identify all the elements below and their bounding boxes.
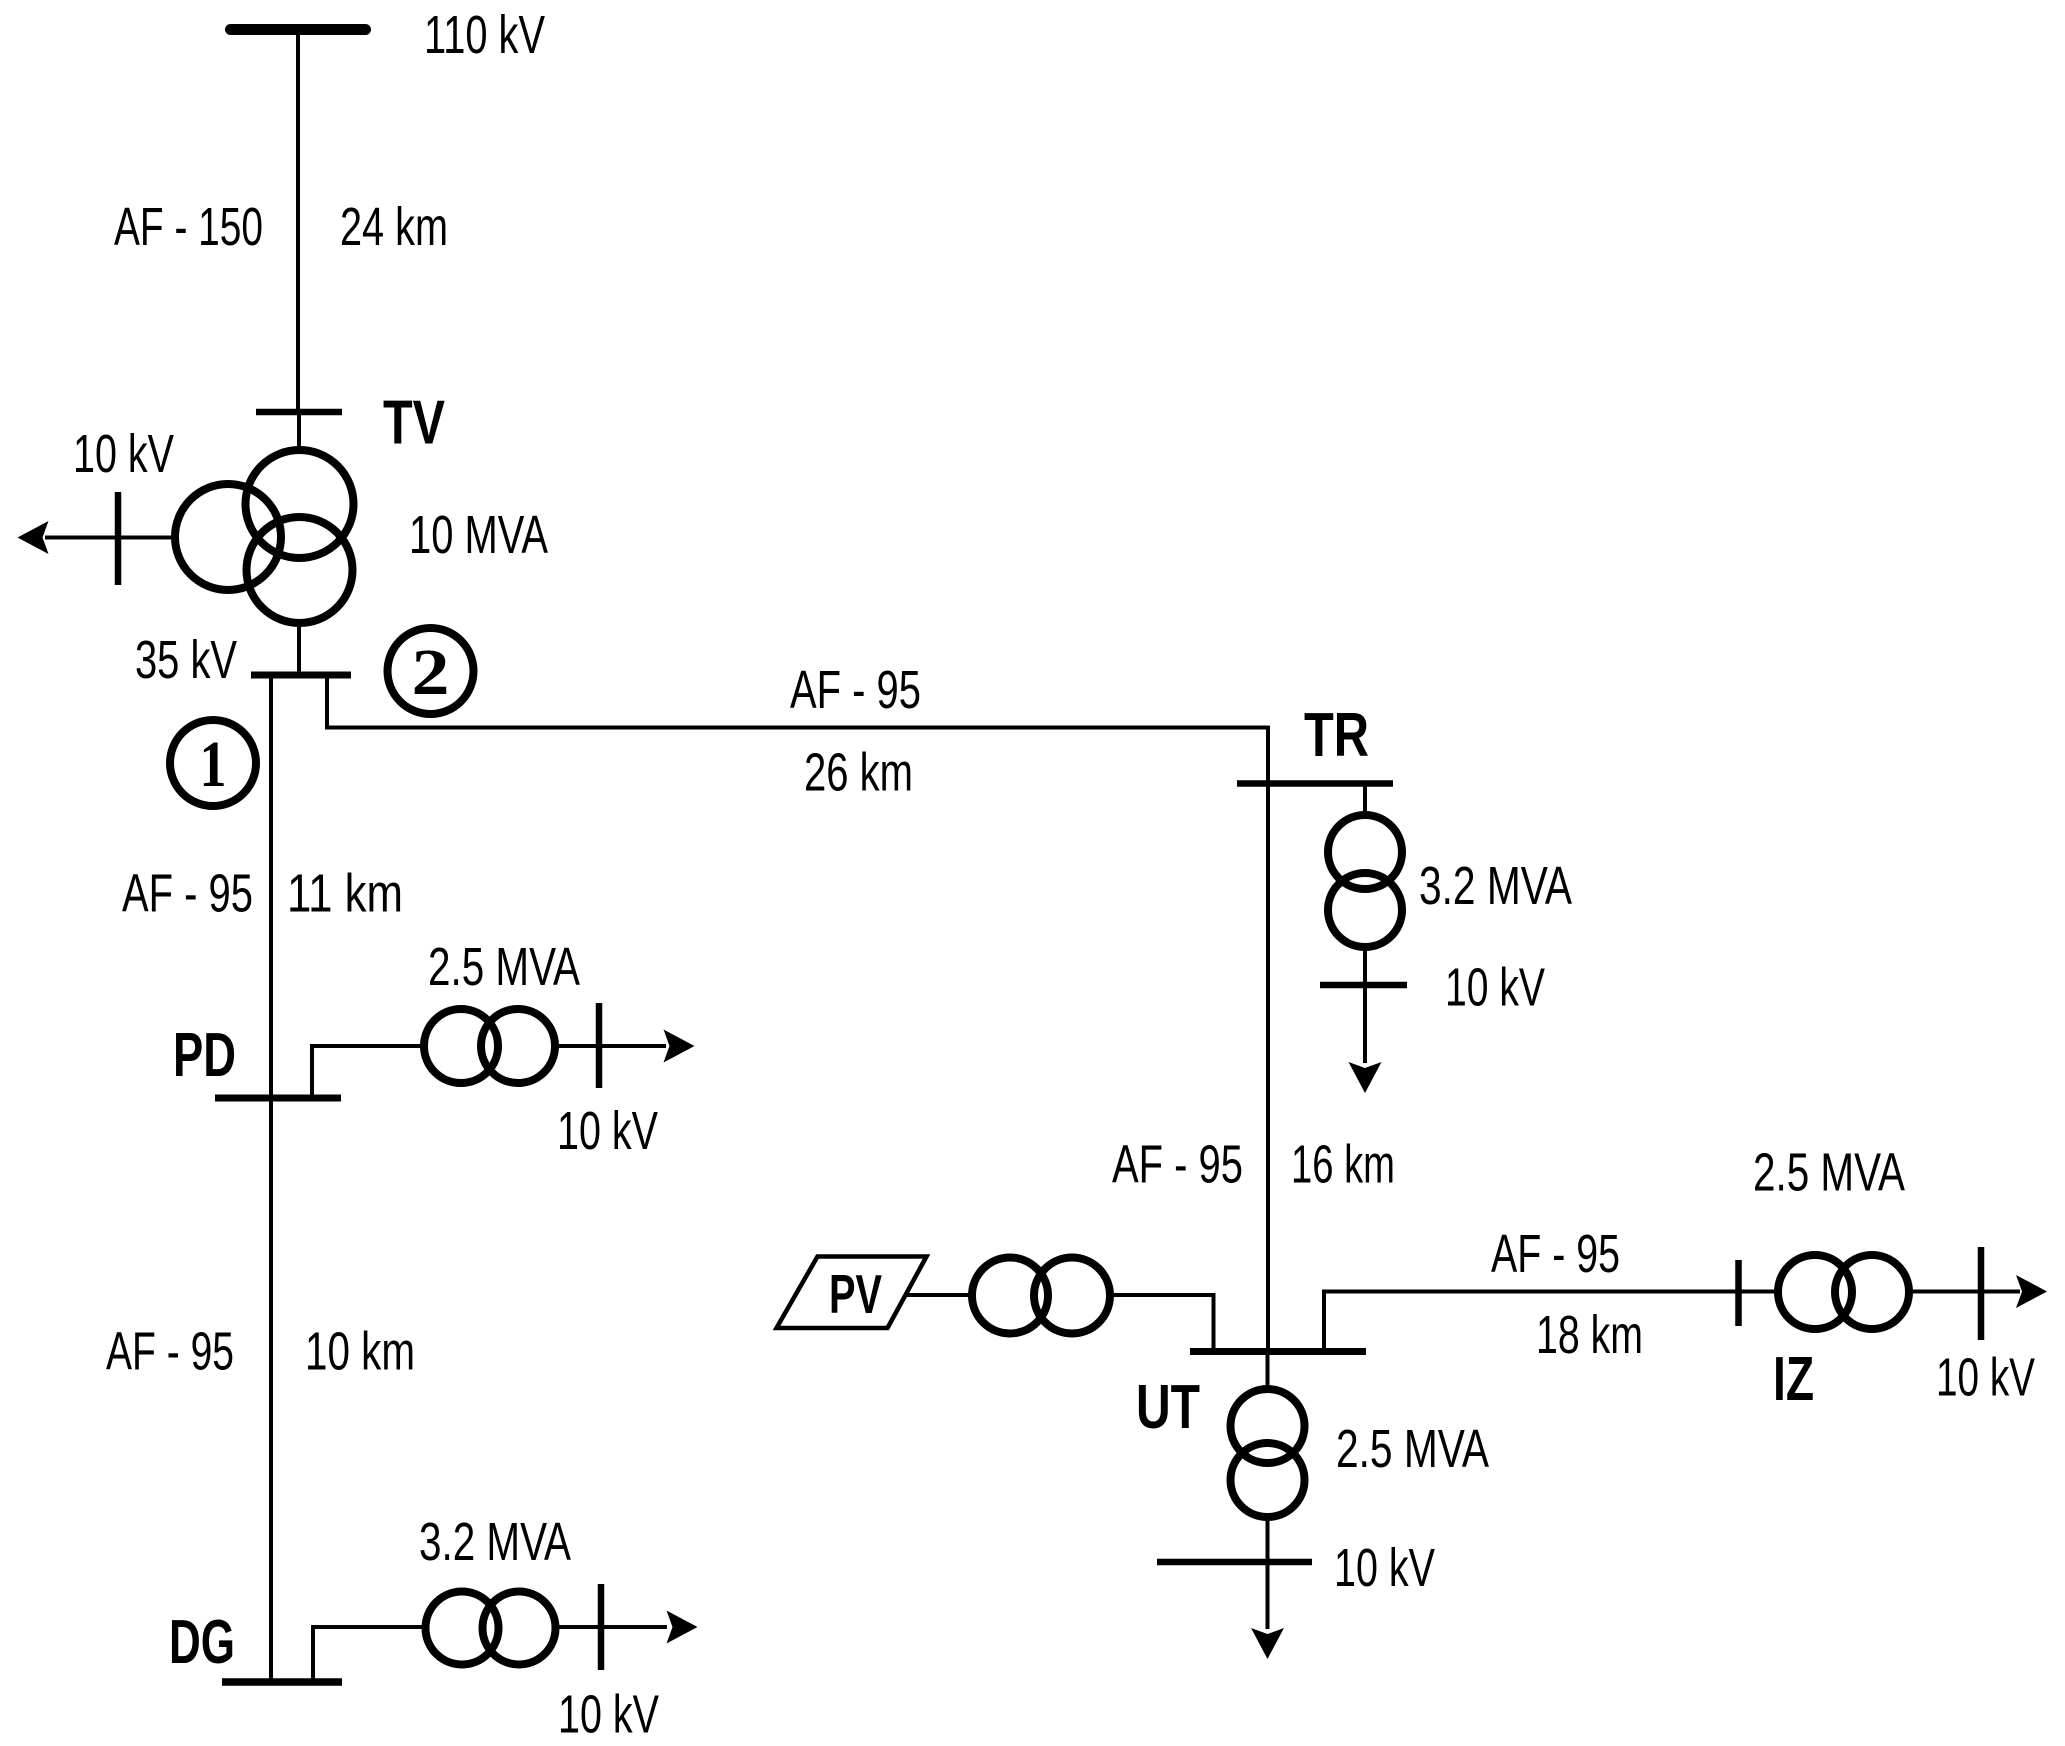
svg-text:10 MVA: 10 MVA: [409, 506, 548, 565]
svg-text:PV: PV: [829, 1263, 882, 1325]
generator PV (photovoltaic source): [777, 1257, 927, 1329]
wire: UT bus to transformer: [1266, 1355, 1270, 1389]
wire: feeder 1 (35 kV bus to PD to DG): [269, 678, 273, 1679]
wire: TR transformer to load: [1363, 945, 1367, 1063]
bus PD: [215, 1095, 341, 1102]
svg-text:2.5 MVA: 2.5 MVA: [428, 938, 580, 997]
svg-text:2: 2: [412, 636, 450, 709]
wire: TV 10 kV feeder to load: [45, 536, 175, 540]
load arrow at TR 10 kV: [1349, 1062, 1382, 1093]
load arrow at DG 10 kV: [667, 1611, 698, 1644]
bus UT: [1190, 1348, 1366, 1355]
wire: PD bus to transformer: [312, 1046, 424, 1098]
svg-text:1: 1: [200, 728, 227, 801]
svg-text:AF - 95: AF - 95: [790, 661, 921, 720]
wire: TR bus to transformer: [1363, 787, 1367, 818]
node: UT 10 kV bus tick: [1157, 1559, 1312, 1566]
wire: DG transformer to load: [556, 1625, 667, 1629]
node 1 circle: [170, 720, 256, 806]
node: PD 10 kV bus tick: [596, 1003, 603, 1088]
transformer TR 3.2 MVA: [1328, 815, 1402, 889]
load arrow at TV 10 kV: [18, 521, 49, 554]
svg-text:10 kV: 10 kV: [558, 1686, 659, 1745]
load arrow at PD 10 kV: [664, 1030, 695, 1063]
svg-text:2.5 MVA: 2.5 MVA: [1336, 1420, 1489, 1479]
load arrow at UT 10 kV: [1251, 1628, 1284, 1659]
transformer TV 10 MVA (three winding): [246, 450, 354, 558]
svg-text:10 kV: 10 kV: [1936, 1349, 2035, 1408]
wire: TV bus to transformer: [297, 412, 301, 452]
svg-text:AF - 95: AF - 95: [122, 865, 253, 924]
wire: TV transformer to 35 kV bus: [297, 621, 301, 672]
svg-text:IZ: IZ: [1773, 1345, 1814, 1414]
svg-text:PD: PD: [173, 1021, 236, 1090]
bus DG: [222, 1678, 342, 1686]
svg-text:16 km: 16 km: [1291, 1136, 1395, 1195]
bus TV 110 kV side: [256, 409, 342, 416]
svg-text:AF - 95: AF - 95: [106, 1323, 234, 1382]
transformer UT 2.5 MVA: [1231, 1389, 1305, 1463]
svg-text:24 km: 24 km: [340, 198, 448, 257]
svg-text:10 km: 10 km: [305, 1323, 415, 1382]
svg-text:26 km: 26 km: [804, 744, 913, 803]
wire: IZ transformer to load: [1909, 1290, 2020, 1294]
wire: feeder 2 (35 kV bus to TR to UT): [327, 678, 1268, 1348]
svg-text:3.2 MVA: 3.2 MVA: [1419, 857, 1572, 916]
transformer DG 3.2 MVA: [426, 1592, 499, 1665]
wire: tick to IZ transformer: [1741, 1290, 1778, 1294]
load arrow at IZ 10 kV: [2016, 1275, 2047, 1308]
wire: UT transformer to load: [1266, 1517, 1270, 1629]
node: TR 10 kV bus tick: [1320, 982, 1407, 989]
transformer PV: [972, 1258, 1048, 1334]
svg-text:TV: TV: [383, 389, 445, 458]
bus 35 kV: [251, 672, 351, 679]
transformer PD 2.5 MVA: [424, 1009, 498, 1083]
svg-text:TR: TR: [1304, 701, 1369, 770]
svg-text:11 km: 11 km: [287, 865, 403, 924]
wire: PD transformer to load: [555, 1044, 666, 1048]
transformer IZ 2.5 MVA: [1778, 1255, 1852, 1329]
node: IZ 10 kV bus tick: [1978, 1247, 1985, 1340]
svg-text:10 kV: 10 kV: [1445, 959, 1545, 1018]
node 2 circle: [388, 628, 474, 714]
svg-text:UT: UT: [1136, 1373, 1200, 1442]
node: IZ line tick 1: [1735, 1260, 1742, 1326]
svg-text:10 kV: 10 kV: [73, 425, 174, 484]
node: DG 10 kV bus tick: [598, 1584, 605, 1670]
svg-text:2.5 MVA: 2.5 MVA: [1753, 1144, 1905, 1203]
wire: DG bus to transformer: [313, 1627, 425, 1682]
wire: 110 kV line AF-150 24 km: [296, 30, 300, 413]
wire: line to IZ 18 km: [1324, 1292, 1736, 1349]
svg-text:10 kV: 10 kV: [557, 1102, 658, 1161]
bus 110 kV: [231, 24, 366, 35]
svg-text:18 km: 18 km: [1536, 1306, 1643, 1365]
svg-text:35 kV: 35 kV: [135, 631, 237, 690]
wire: PV to transformer: [906, 1293, 972, 1297]
svg-text:3.2 MVA: 3.2 MVA: [419, 1513, 571, 1572]
svg-text:10 kV: 10 kV: [1334, 1539, 1435, 1598]
bus TR: [1237, 780, 1393, 787]
svg-text:AF - 150: AF - 150: [114, 198, 263, 257]
svg-text:110 kV: 110 kV: [424, 6, 545, 65]
wire: PV transformer to UT bus: [1110, 1295, 1214, 1348]
node: 10 kV bus tick at TV: [115, 492, 122, 585]
svg-text:AF - 95: AF - 95: [1491, 1225, 1620, 1284]
svg-text:AF - 95: AF - 95: [1112, 1136, 1243, 1195]
svg-text:DG: DG: [169, 1608, 235, 1677]
